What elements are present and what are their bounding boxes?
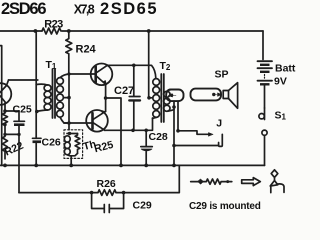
svg-text:2SD66: 2SD66	[1, 0, 47, 18]
node C28 top	[144, 129, 148, 133]
node R22 b	[3, 133, 6, 136]
wire jack sleeve bracket	[174, 145, 219, 147]
svg-text:C27: C27	[114, 85, 134, 97]
node box top	[68, 132, 71, 135]
T1 secondary winding	[57, 78, 64, 85]
svg-text:C28: C28	[149, 131, 168, 143]
capacitor C28	[141, 130, 153, 146]
wire Q3 base	[64, 122, 93, 124]
wire R26 feedback line	[19, 165, 179, 192]
node rail 1	[3, 164, 7, 168]
svg-text:X7,8: X7,8	[74, 2, 95, 16]
wire top rail	[0, 30, 263, 32]
wire T2 secondary to ground	[173, 101, 175, 165]
node Q1 emitter	[3, 109, 7, 113]
resistor R22	[3, 111, 8, 159]
node T2 centre tap	[147, 96, 151, 100]
resistor R25	[75, 134, 80, 154]
svg-text:R24: R24	[76, 44, 97, 56]
jack J pin	[219, 134, 223, 146]
node rail 4	[119, 164, 123, 168]
resistor R26	[98, 190, 116, 196]
resistor R23	[42, 28, 61, 34]
capacitor C25	[14, 111, 25, 121]
wire jack switch arm	[178, 101, 210, 134]
svg-text:R26: R26	[97, 178, 116, 190]
node top rail T2 feed	[147, 29, 151, 33]
node R26 right	[122, 191, 126, 195]
wire Q2 base	[69, 73, 96, 75]
block arrow	[242, 178, 261, 186]
svg-text:C26: C26	[42, 137, 61, 149]
svg-text:SP: SP	[215, 69, 229, 81]
transistor Q1 (2SD66, cropped at left)	[0, 83, 11, 105]
thermistor Th	[64, 136, 70, 142]
svg-text:C25: C25	[13, 104, 32, 116]
speaker cable socket	[166, 90, 183, 102]
node rail 2	[34, 164, 38, 168]
svg-text:R23: R23	[44, 19, 63, 31]
resistor R24	[66, 31, 72, 74]
wire supply to T2 centre tap	[148, 31, 150, 98]
wire Q3 collector to T2	[105, 118, 153, 130]
note: mounted resistor demo	[191, 179, 232, 184]
node rail 3	[69, 164, 73, 168]
wire Q2 collector to T2	[107, 65, 156, 78]
T2 primary winding	[153, 79, 160, 86]
wire Q2 emitter	[105, 84, 107, 98]
svg-text:C29: C29	[133, 200, 152, 212]
wire R24 to Q3 base / bias	[68, 74, 70, 130]
battery Batt 9V	[263, 31, 265, 108]
node top rail R24	[67, 29, 71, 33]
wire bottom rail	[0, 164, 265, 166]
thermistor network box (dashed)	[64, 130, 83, 159]
wire emitter to C25	[5, 110, 19, 112]
node C27 bottom	[131, 129, 135, 133]
mounted figure	[270, 170, 284, 193]
node sec a	[172, 105, 176, 109]
node Q3 base junction	[67, 121, 71, 125]
node rail 6	[172, 164, 176, 168]
T1 primary winding	[44, 85, 51, 91]
wire R22 to C25 line	[5, 133, 19, 135]
node rail 5	[144, 164, 148, 168]
svg-text:2SD65: 2SD65	[100, 0, 157, 18]
node T1 primary bottom	[35, 110, 39, 114]
transistor Q2 (upper 2SD65)	[91, 64, 113, 86]
wire left border	[0, 46, 2, 166]
node arm tee	[176, 129, 180, 133]
wire Q1 collector to T1	[9, 79, 38, 81]
node R22 a	[3, 123, 6, 126]
capacitor C29	[92, 193, 124, 213]
node R26 left	[90, 191, 94, 195]
node top rail left	[34, 29, 38, 33]
wire emitter to ground line	[106, 98, 121, 165]
svg-text:C29 is mounted: C29 is mounted	[189, 201, 261, 212]
node C25 line	[17, 133, 20, 136]
node bracket tee	[172, 144, 176, 148]
speaker cable plug	[191, 89, 222, 101]
switch S1	[264, 108, 266, 120]
svg-text:Batt: Batt	[275, 63, 296, 75]
node T1 centre tap	[67, 96, 71, 100]
node emitters	[104, 96, 108, 100]
capacitor C27	[129, 65, 140, 130]
wire left supply drop	[35, 31, 37, 137]
svg-text:J: J	[216, 118, 222, 130]
T2 secondary winding	[164, 91, 170, 97]
svg-text:9V: 9V	[274, 76, 287, 88]
wire Q3 emitter riser	[105, 98, 107, 112]
node R24 corner	[67, 72, 70, 75]
capacitor C26	[33, 137, 42, 139]
transistor Q3 (lower 2SD65)	[86, 110, 108, 132]
node C27 top	[132, 64, 136, 68]
